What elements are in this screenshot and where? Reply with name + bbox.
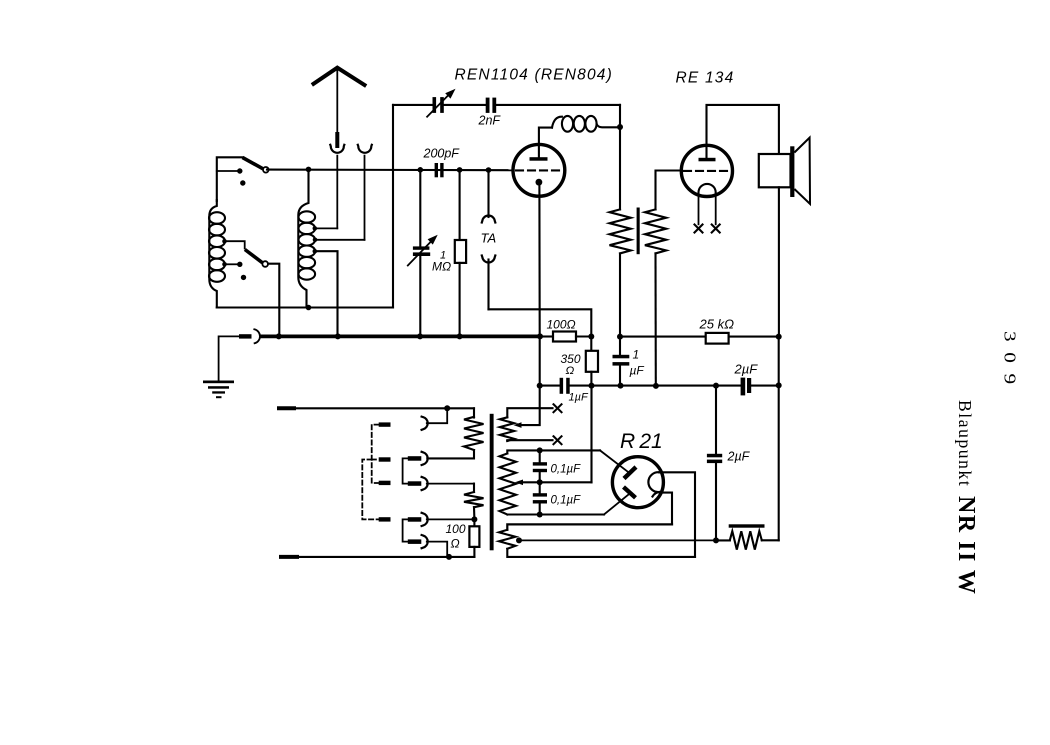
tube RE134 filament xyxy=(699,184,716,224)
tube RE134 grid (dashed) xyxy=(684,170,730,172)
tube R21 envelope xyxy=(612,457,663,508)
coil L1 tap stub to contact xyxy=(222,262,242,267)
svg-text:RE 134: RE 134 xyxy=(676,70,735,87)
node choke to transformer xyxy=(617,124,623,130)
node primary 100R socket4 xyxy=(471,516,477,522)
resistor (regulating) with slider bar xyxy=(716,524,779,549)
wire switch S2 output to bus xyxy=(268,264,279,337)
spare plug A xyxy=(379,422,391,426)
resistor 100Ω cathode xyxy=(540,332,591,342)
capacitor 0,1µF upper xyxy=(533,450,547,482)
voltage selector socket 1 xyxy=(422,408,448,430)
filament winding bottom lead xyxy=(507,495,628,515)
wire mains to primary top xyxy=(473,408,475,417)
coil L2 tap 1 xyxy=(313,226,338,231)
coil L2 body xyxy=(298,170,315,308)
power transformer primary winding upper xyxy=(464,417,484,450)
interstage transformer secondary xyxy=(645,209,666,253)
svg-text:0,1µF: 0,1µF xyxy=(551,495,582,507)
coil L1 tap to switch S2 xyxy=(222,239,245,249)
tube REN1104 grid (dashed) xyxy=(516,169,563,171)
label 1 µF (HT cap) xyxy=(630,348,645,378)
switch S1 contact dot B xyxy=(240,180,245,185)
svg-text:25 kΩ: 25 kΩ xyxy=(699,317,735,332)
HT winding top lead to x xyxy=(507,404,561,417)
resistor 1 MΩ xyxy=(455,170,466,337)
svg-text:0,1µF: 0,1µF xyxy=(551,464,582,476)
mains lead bottom xyxy=(281,555,474,559)
tube REN1104 cathode xyxy=(536,179,543,337)
svg-text:MΩ: MΩ xyxy=(432,260,451,274)
svg-text:1µF: 1µF xyxy=(569,392,589,404)
spare plug D xyxy=(379,517,391,521)
node mains bottom xyxy=(446,554,452,560)
HT winding bottom lead to x xyxy=(507,436,561,444)
filament winding center tap xyxy=(515,386,592,486)
jack TA lower socket xyxy=(482,256,496,310)
output filament winding xyxy=(499,530,516,549)
arrow HT center tap xyxy=(514,422,522,428)
interstage transformer primary xyxy=(610,209,631,253)
interstage transformer core xyxy=(637,208,640,255)
label 350 Ω xyxy=(561,352,581,377)
svg-text:R 21: R 21 xyxy=(620,430,663,453)
node grid line tuning cap xyxy=(418,167,424,173)
svg-text:2nF: 2nF xyxy=(478,114,502,128)
resistor 25 kΩ xyxy=(706,333,729,344)
wire top feedback line xyxy=(393,105,620,128)
node heater line 2uF xyxy=(713,537,719,543)
node bus tuning cap xyxy=(417,333,423,339)
capacitor 1µF (HT) xyxy=(613,337,630,386)
output winding bottom lead xyxy=(507,549,695,557)
svg-text:REN1104 (REN804): REN1104 (REN804) xyxy=(455,67,613,84)
output winding center tap xyxy=(516,537,716,543)
node bias grid RE134 xyxy=(653,383,659,389)
wire speaker to rail xyxy=(778,187,780,336)
node grid line TA xyxy=(486,167,492,173)
node bus switch xyxy=(276,333,282,339)
svg-text:2µF: 2µF xyxy=(734,362,759,377)
node bias 350R xyxy=(589,383,595,389)
output winding top lead xyxy=(507,524,672,529)
wire cathode to HT tap xyxy=(520,336,540,425)
tube R21 anode plate lower xyxy=(624,487,636,498)
node bias 2uF shunt xyxy=(713,383,719,389)
wire secondary bottom to bias line xyxy=(654,253,656,386)
node center tap 0.1uF xyxy=(537,479,543,485)
node bus 1M xyxy=(457,333,463,339)
tube R21 anode plate upper xyxy=(624,467,636,479)
capacitor 2µF (series output) xyxy=(741,378,752,396)
capacitor 200pF xyxy=(435,163,444,177)
coil L2 tap 2 xyxy=(313,238,365,243)
variable capacitor (feedback trimmer) xyxy=(427,89,455,117)
tube R21 filament arc xyxy=(648,472,660,496)
node 100R-350R junction xyxy=(588,334,594,340)
node HT right rail xyxy=(776,334,782,340)
node fil top 0.1uF xyxy=(537,447,543,453)
svg-text:350: 350 xyxy=(561,352,581,366)
label 1 MΩ xyxy=(432,250,451,274)
resistor 100 Ω (barretter) xyxy=(469,519,479,557)
tube RE134 anode xyxy=(699,105,779,161)
filament winding top lead xyxy=(507,450,627,471)
switch S1 pivot xyxy=(263,167,269,173)
capacitor 2nF xyxy=(486,98,496,113)
dashed link B-D xyxy=(362,460,378,520)
switch S1 contact dot A xyxy=(237,168,242,173)
wire right rail xyxy=(778,337,780,541)
rectifier filament winding xyxy=(500,454,517,515)
svg-text:TA: TA xyxy=(481,231,497,246)
wire main grid line xyxy=(267,169,514,172)
tube REN1104 envelope xyxy=(513,144,565,196)
node coil L2 bottom xyxy=(306,305,312,311)
node bus cathode xyxy=(537,333,543,339)
wire chassis bus xyxy=(262,334,541,338)
switch S1 spare contact stub xyxy=(217,170,238,172)
node bias right rail xyxy=(776,382,782,388)
link plug 4-5 xyxy=(403,519,409,541)
HT winding xyxy=(500,417,514,441)
R21 filament lead lower xyxy=(660,493,673,525)
wire coil bottoms xyxy=(217,306,393,308)
svg-text:100: 100 xyxy=(446,522,466,536)
anode choke coil xyxy=(552,116,620,132)
node HT line left xyxy=(617,334,623,340)
svg-text:309: 309 xyxy=(1000,331,1019,395)
wire anode supply riser xyxy=(619,127,621,209)
wire antenna jack2 to coil tap xyxy=(364,156,366,240)
node bias 1uF-anode xyxy=(618,383,624,389)
voltage selector socket 4 with plug xyxy=(408,513,475,526)
svg-text:Ω: Ω xyxy=(566,365,575,377)
spare plug C xyxy=(379,481,391,485)
capacitor 1µF (bias) xyxy=(560,378,570,394)
svg-text:Ω: Ω xyxy=(451,537,460,551)
tuning capacitor (variable) xyxy=(408,170,438,337)
voltage selector socket 2 with plug xyxy=(408,452,428,465)
jack TA upper socket xyxy=(482,170,496,223)
coil L1 body xyxy=(209,200,225,308)
ground lead and connector xyxy=(219,329,260,381)
antenna xyxy=(314,68,365,146)
wire TA return xyxy=(489,309,592,336)
antenna jack socket 1 xyxy=(330,145,344,153)
svg-text:200pF: 200pF xyxy=(423,147,461,161)
capacitor 2µF shunt xyxy=(707,386,722,541)
wire switch1 feed xyxy=(217,157,243,201)
power transformer primary winding lower xyxy=(464,492,484,507)
dashed link A-B-C xyxy=(372,425,379,483)
antenna jack socket 2 (spare) xyxy=(358,145,372,153)
wire primary to HT node xyxy=(619,253,621,336)
label 100 Ω xyxy=(446,522,466,551)
filament terminal x marks xyxy=(695,225,720,233)
loudspeaker xyxy=(759,138,810,204)
wire bias line xyxy=(540,385,779,387)
switch S2 lever xyxy=(245,250,263,263)
svg-text:1: 1 xyxy=(633,348,640,362)
power transformer core xyxy=(490,414,494,551)
switch S2 pivot xyxy=(262,261,268,267)
svg-text:BlaupunktNR II W: BlaupunktNR II W xyxy=(953,400,979,595)
svg-text:2µF: 2µF xyxy=(727,450,751,464)
R21 filament lead upper xyxy=(659,472,695,557)
wire feedback riser xyxy=(392,105,394,308)
node bus coil tap xyxy=(335,333,341,339)
mains lead top xyxy=(279,406,474,410)
tube REN1104 anode xyxy=(530,128,553,161)
switch S2 contact dot C xyxy=(241,275,246,280)
spare plug B xyxy=(379,457,391,461)
node coil L2 top xyxy=(306,167,312,173)
link plug 2-3 xyxy=(403,458,409,483)
wire primary to socket2 xyxy=(427,450,474,458)
wire secondary to RE134 grid xyxy=(656,171,682,210)
coil L2 tap 3 to bus xyxy=(313,249,338,337)
node bias cathode xyxy=(537,383,543,389)
node fil bottom 0.1uF xyxy=(537,512,543,518)
voltage selector socket 5 with plug xyxy=(408,535,447,557)
wire HT line xyxy=(620,336,779,338)
svg-text:µF: µF xyxy=(630,364,645,378)
svg-text:100Ω: 100Ω xyxy=(547,318,576,332)
capacitor 0,1µF lower xyxy=(533,482,547,514)
wire socket3 to primary lower xyxy=(473,484,475,492)
wire primary lower to 100R xyxy=(473,507,475,519)
node grid line 1M xyxy=(457,167,463,173)
resistor 350Ω xyxy=(586,337,598,386)
voltage selector socket 3 with plug xyxy=(408,477,474,490)
ground symbol xyxy=(203,381,234,399)
node mains top jack xyxy=(444,405,450,411)
tube RE134 envelope xyxy=(681,145,732,196)
switch S1 lever xyxy=(243,158,264,169)
wire antenna jack1 to coil tap xyxy=(336,156,338,229)
